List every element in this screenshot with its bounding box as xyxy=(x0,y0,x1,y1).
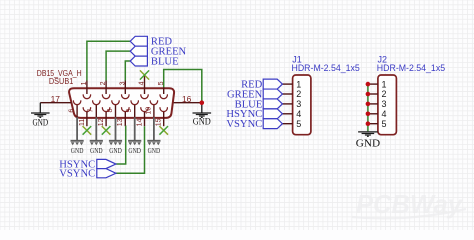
net label flag HSYNC xyxy=(97,159,116,168)
junction node on J2 gnd bus xyxy=(366,121,371,126)
pin 16 of DSUB1 xyxy=(174,102,202,104)
svg-text:4: 4 xyxy=(382,109,387,119)
svg-text:GND: GND xyxy=(90,146,103,155)
pin 1 of J2 xyxy=(368,83,378,85)
wire HSYNC net xyxy=(116,126,126,164)
svg-text:17: 17 xyxy=(51,94,61,104)
svg-text:3: 3 xyxy=(382,99,387,109)
connector DSUB1 body xyxy=(69,88,174,118)
svg-text:13: 13 xyxy=(117,118,124,126)
junction node on J2 gnd bus xyxy=(366,92,371,97)
no-connect X on pin 4 xyxy=(140,70,149,79)
svg-text:5: 5 xyxy=(382,119,387,129)
junction node on J2 gnd bus xyxy=(366,112,371,117)
svg-text:1: 1 xyxy=(81,81,88,85)
svg-text:HDR-M-2.54_1x5: HDR-M-2.54_1x5 xyxy=(292,63,360,73)
ground at pin 17 xyxy=(39,103,41,113)
no-connect X xyxy=(159,126,168,135)
svg-text:DSUB1: DSUB1 xyxy=(49,77,74,86)
net label flag GREEN xyxy=(130,46,147,56)
pin 12 of DSUB1 xyxy=(102,107,110,111)
svg-text:11: 11 xyxy=(79,119,86,126)
svg-text:5: 5 xyxy=(296,119,301,129)
pin 11 of DSUB1 xyxy=(83,107,90,111)
pin 4 of J2 xyxy=(368,113,378,115)
junction node on J2 gnd bus xyxy=(366,82,371,87)
pin 9 of DSUB1 xyxy=(131,100,138,104)
pin 2 of DSUB1 xyxy=(105,81,107,95)
ground at pin 10 xyxy=(153,117,155,140)
pin 17 of DSUB1 xyxy=(40,102,71,104)
ground at pin 7 xyxy=(95,117,97,140)
svg-text:14: 14 xyxy=(136,118,143,126)
svg-text:1: 1 xyxy=(382,79,387,89)
svg-text:6: 6 xyxy=(69,109,76,113)
net label flag RED at J1 pin 1 xyxy=(263,79,282,89)
wire BLUE net xyxy=(125,61,130,80)
pin 5 of J1 xyxy=(282,123,292,125)
ground at pin 8 xyxy=(115,117,117,140)
svg-text:2: 2 xyxy=(296,89,301,99)
junction node pin16/pin5 GND xyxy=(200,100,205,105)
wire pin5 to GND junction xyxy=(164,70,202,103)
ground under J2 xyxy=(358,131,378,133)
pin 4 of J1 xyxy=(282,113,292,115)
pin 5 of J2 xyxy=(368,123,378,125)
pin 15 of DSUB1 xyxy=(160,107,168,111)
header J1 body xyxy=(293,75,311,135)
pin 2 of J2 xyxy=(368,93,378,95)
svg-text:3: 3 xyxy=(119,81,126,85)
pin 14 of DSUB1 xyxy=(141,107,149,111)
svg-text:HDR-M-2.54_1x5: HDR-M-2.54_1x5 xyxy=(377,63,445,73)
no-connect X xyxy=(83,126,92,135)
svg-text:VSYNC: VSYNC xyxy=(226,119,262,130)
net label flag BLUE at J1 pin 3 xyxy=(263,99,282,109)
svg-text:GND: GND xyxy=(128,146,141,155)
svg-text:BLUE: BLUE xyxy=(151,57,179,68)
svg-text:12: 12 xyxy=(98,118,105,126)
pin 10 of DSUB1 xyxy=(150,100,157,104)
svg-text:15: 15 xyxy=(156,118,163,126)
svg-text:GND: GND xyxy=(356,139,381,150)
svg-text:3: 3 xyxy=(296,99,301,109)
pin 3 of J2 xyxy=(368,103,378,105)
junction node on J2 gnd bus xyxy=(366,102,371,107)
svg-text:GND: GND xyxy=(32,117,48,127)
svg-text:GND: GND xyxy=(148,146,161,155)
net label flag VSYNC xyxy=(97,169,116,178)
wire GREEN net xyxy=(106,51,130,80)
svg-text:GND: GND xyxy=(109,146,122,155)
wire J2 pins to GND xyxy=(367,84,369,131)
header J2 body xyxy=(378,75,397,135)
pin 7 of DSUB1 xyxy=(93,100,101,104)
net label flag RED xyxy=(130,36,147,46)
pin 2 of J1 xyxy=(282,93,292,95)
svg-text:GND: GND xyxy=(193,117,211,127)
ground at pin 6 xyxy=(76,117,78,140)
pin 8 of DSUB1 xyxy=(112,100,120,104)
ground at pin 16 xyxy=(201,103,203,113)
pin 6 of DSUB1 xyxy=(73,100,81,104)
pin 3 of DSUB1 xyxy=(124,81,126,95)
svg-text:GND: GND xyxy=(71,146,84,155)
net label flag GREEN at J1 pin 2 xyxy=(263,89,282,99)
net label flag BLUE xyxy=(130,56,147,66)
svg-text:2: 2 xyxy=(382,89,387,99)
wire VSYNC net xyxy=(116,126,145,173)
pin 5 of DSUB1 xyxy=(163,87,165,94)
PCBWay watermark xyxy=(352,189,466,219)
svg-text:4: 4 xyxy=(296,109,301,119)
svg-text:2: 2 xyxy=(100,81,107,85)
pin 3 of J1 xyxy=(282,103,292,105)
no-connect X xyxy=(102,126,111,135)
ground at pin 9 xyxy=(134,117,136,140)
net label flag HSYNC at J1 pin 4 xyxy=(263,109,282,119)
wire RED net xyxy=(87,41,130,80)
pin 1 of J1 xyxy=(282,83,292,85)
svg-text:4: 4 xyxy=(139,81,146,85)
pin 1 of DSUB1 xyxy=(86,81,88,95)
svg-text:1: 1 xyxy=(296,79,301,89)
svg-text:VSYNC: VSYNC xyxy=(59,169,95,180)
pin 13 of DSUB1 xyxy=(122,107,130,111)
pin 4 of DSUB1 xyxy=(144,75,146,94)
net label flag VSYNC at J1 pin 5 xyxy=(263,119,282,129)
svg-text:16: 16 xyxy=(182,94,192,104)
